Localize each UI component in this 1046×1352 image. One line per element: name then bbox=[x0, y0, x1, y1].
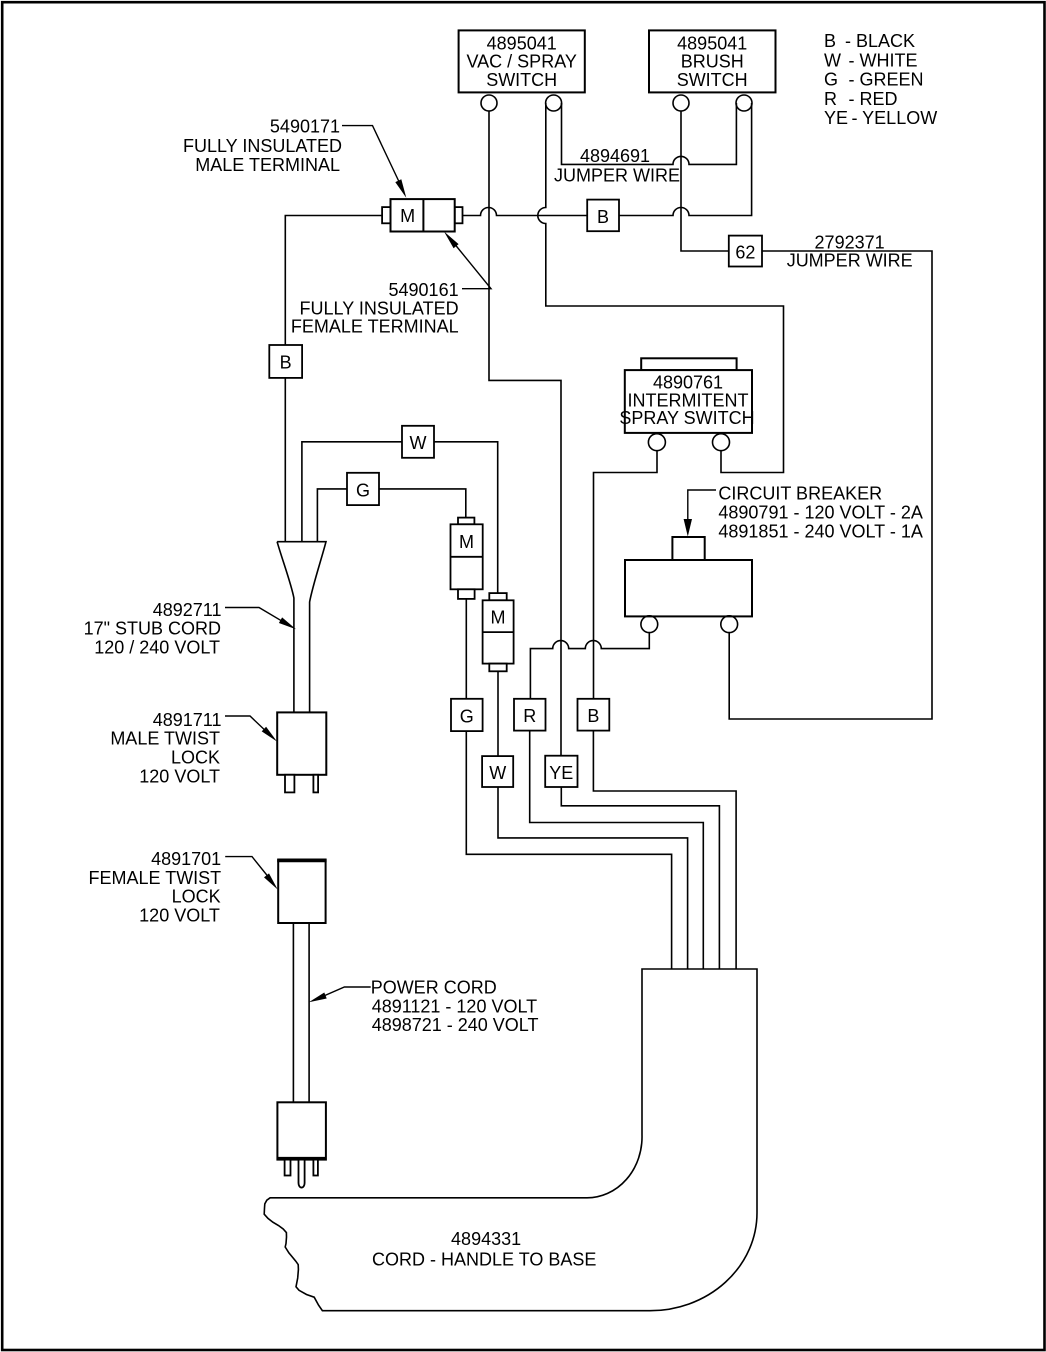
terminal pair 5490171/5490161 male-female bbox=[382, 199, 462, 231]
svg-text:M: M bbox=[459, 532, 474, 552]
wire: VAC right terminal to spray switch right terminal bbox=[538, 103, 784, 473]
svg-text:LOCK: LOCK bbox=[171, 748, 220, 768]
jumper wire 4894691 bbox=[562, 103, 737, 164]
terminal: brush switch left bbox=[673, 95, 689, 111]
wire: black run to cord bbox=[593, 731, 736, 969]
wire: black run terminal strip to brush switch right terminal bbox=[462, 103, 751, 216]
svg-text:JUMPER WIRE: JUMPER WIRE bbox=[787, 250, 913, 270]
label 5490161 FULLY INSULATED FEMALE TERMINAL bbox=[291, 280, 459, 337]
svg-text:W: W bbox=[410, 433, 427, 453]
label POWER CORD 4891121/4898721 bbox=[371, 978, 539, 1036]
svg-text:R: R bbox=[523, 706, 536, 726]
lower male plug P3 on power cord bbox=[277, 1102, 326, 1187]
leader arrow 4892711 bbox=[225, 608, 288, 625]
svg-text:4890791 - 120 VOLT - 2A: 4890791 - 120 VOLT - 2A bbox=[718, 503, 922, 523]
svg-text:4891851 - 240 VOLT - 1A: 4891851 - 240 VOLT - 1A bbox=[718, 522, 922, 542]
leader arrow POWER CORD bbox=[318, 987, 371, 999]
svg-text:M: M bbox=[491, 607, 506, 627]
cord handle-to-base outline 4894331 bbox=[264, 969, 757, 1311]
label 5490171 FULLY INSULATED MALE TERMINAL bbox=[183, 116, 342, 175]
svg-text:G: G bbox=[460, 706, 474, 726]
svg-text:62: 62 bbox=[735, 242, 755, 262]
svg-text:120 / 240 VOLT: 120 / 240 VOLT bbox=[94, 637, 220, 657]
label 4891701 FEMALE TWIST LOCK 120 VOLT bbox=[89, 849, 222, 925]
leader arrow 4891701 bbox=[225, 857, 270, 879]
terminal: breaker right bbox=[721, 616, 738, 633]
wire: white run to cord bbox=[498, 787, 688, 969]
wire: VAC left terminal to YE box (black/yellow run) bbox=[489, 111, 561, 756]
terminal 62 tag box bbox=[729, 236, 762, 267]
male twist lock plug P1 bbox=[277, 712, 326, 792]
svg-text:B- BLACK: B- BLACK bbox=[824, 31, 915, 51]
svg-text:JUMPER WIRE: JUMPER WIRE bbox=[554, 165, 680, 185]
svg-text:B: B bbox=[587, 706, 599, 726]
power cord tube bbox=[293, 923, 309, 1102]
svg-text:17" STUB CORD: 17" STUB CORD bbox=[84, 619, 221, 639]
wire: green run to cord bbox=[466, 731, 671, 969]
svg-text:MALE TWIST: MALE TWIST bbox=[110, 729, 220, 749]
svg-text:SWITCH: SWITCH bbox=[677, 70, 748, 90]
leader arrow to circuit breaker bbox=[688, 490, 716, 520]
svg-text:YE- YELLOW: YE- YELLOW bbox=[824, 108, 937, 128]
svg-text:R- RED: R- RED bbox=[824, 89, 898, 109]
terminal: spray switch left bbox=[648, 434, 665, 451]
jumper wire 2792371 bbox=[729, 251, 932, 719]
circuit breaker CB1 bbox=[625, 537, 752, 616]
terminal: breaker left bbox=[641, 616, 658, 633]
svg-text:4892711: 4892711 bbox=[153, 600, 222, 620]
svg-text:5490161: 5490161 bbox=[389, 280, 459, 300]
node B lower (black wire tag) bbox=[578, 699, 610, 731]
leader arrow 4891711 bbox=[225, 716, 270, 735]
svg-text:W: W bbox=[489, 763, 506, 783]
svg-text:M: M bbox=[400, 206, 415, 226]
wire: red run to cord bbox=[530, 731, 704, 969]
svg-text:CORD - HANDLE TO BASE: CORD - HANDLE TO BASE bbox=[372, 1250, 596, 1270]
wire: spray switch left terminal to lower B box bbox=[594, 451, 658, 699]
wire: brush switch left terminal down to 62 jumper bbox=[681, 111, 729, 251]
terminal M2 inline connector bbox=[483, 593, 514, 671]
leader arrow 5490171 bbox=[342, 126, 402, 188]
node G (green wire tag) bbox=[347, 473, 379, 505]
svg-text:W- WHITE: W- WHITE bbox=[824, 50, 918, 70]
node W (white wire tag) bbox=[402, 426, 434, 458]
label 4891711 MALE TWIST LOCK 120 VOLT bbox=[110, 710, 221, 786]
svg-text:POWER CORD: POWER CORD bbox=[371, 978, 497, 998]
svg-text:4894331: 4894331 bbox=[451, 1229, 521, 1249]
svg-text:G- GREEN: G- GREEN bbox=[824, 70, 924, 90]
svg-text:MALE TERMINAL: MALE TERMINAL bbox=[195, 155, 340, 175]
svg-text:SWITCH: SWITCH bbox=[486, 70, 557, 90]
wire: green run stub cord to G box to M connector 1 bbox=[317, 489, 465, 542]
stub cord strain relief funnel bbox=[277, 542, 326, 713]
svg-text:YE: YE bbox=[549, 763, 573, 783]
svg-text:4891701: 4891701 bbox=[151, 849, 221, 869]
svg-text:B: B bbox=[280, 353, 292, 373]
svg-text:4890761: 4890761 bbox=[653, 372, 723, 392]
svg-text:B: B bbox=[597, 207, 609, 227]
leader arrow 5490161 bbox=[453, 242, 491, 289]
svg-text:120 VOLT: 120 VOLT bbox=[139, 766, 220, 786]
node G lower (green wire tag) bbox=[451, 699, 483, 731]
svg-text:4895041: 4895041 bbox=[677, 33, 747, 53]
terminal: brush switch right bbox=[736, 95, 752, 111]
wire: white run stub cord to W box to M connector 2 bbox=[302, 442, 498, 593]
svg-text:4891711: 4891711 bbox=[153, 710, 222, 730]
terminal: VAC switch left bbox=[481, 95, 497, 111]
svg-text:FULLY INSULATED: FULLY INSULATED bbox=[183, 136, 342, 156]
svg-text:FEMALE TERMINAL: FEMALE TERMINAL bbox=[291, 317, 459, 337]
svg-text:SPRAY SWITCH: SPRAY SWITCH bbox=[619, 408, 754, 428]
female twist lock plug P2 bbox=[277, 860, 326, 924]
wire: M1 to lower G box bbox=[465, 599, 467, 699]
svg-text:CIRCUIT BREAKER: CIRCUIT BREAKER bbox=[718, 483, 882, 503]
terminal: spray switch right bbox=[713, 434, 730, 451]
node YE (yellow wire tag) bbox=[545, 756, 577, 787]
wire: M2 to lower W box bbox=[497, 671, 499, 756]
svg-text:FEMALE TWIST: FEMALE TWIST bbox=[89, 868, 222, 888]
svg-text:BRUSH: BRUSH bbox=[681, 52, 744, 72]
svg-text:G: G bbox=[356, 480, 370, 500]
legend wire color codes bbox=[824, 31, 937, 128]
wire: male terminal to B box and stub cord bbox=[285, 216, 382, 542]
node B (left black wire tag) bbox=[269, 345, 302, 378]
switch S2 4895041 BRUSH bbox=[649, 30, 776, 92]
node B (black wire tag) bbox=[587, 200, 619, 232]
terminal: VAC switch right bbox=[546, 95, 562, 111]
terminal M1 inline connector bbox=[451, 518, 483, 599]
svg-text:4895041: 4895041 bbox=[487, 33, 557, 53]
svg-text:4898721 - 240 VOLT: 4898721 - 240 VOLT bbox=[372, 1015, 539, 1035]
node W lower (white wire tag) bbox=[482, 756, 513, 787]
label CIRCUIT BREAKER bbox=[718, 483, 922, 541]
svg-text:VAC / SPRAY: VAC / SPRAY bbox=[467, 52, 577, 72]
svg-text:4894691: 4894691 bbox=[580, 146, 650, 166]
label 4892711 17" STUB CORD 120/240 VOLT bbox=[84, 600, 222, 658]
svg-text:5490171: 5490171 bbox=[270, 116, 340, 136]
svg-text:LOCK: LOCK bbox=[172, 887, 221, 907]
node R (red wire tag) bbox=[514, 699, 546, 731]
svg-text:120 VOLT: 120 VOLT bbox=[139, 906, 220, 926]
svg-text:4891121 - 120 VOLT: 4891121 - 120 VOLT bbox=[372, 996, 537, 1016]
wire: breaker left terminal to R box bbox=[530, 633, 649, 699]
svg-text:FULLY INSULATED: FULLY INSULATED bbox=[300, 298, 459, 318]
wire: yellow run to cord bbox=[561, 787, 719, 969]
intermitent spray switch U1 bbox=[619, 358, 754, 433]
switch S1 4895041 VAC/SPRAY bbox=[459, 30, 585, 92]
